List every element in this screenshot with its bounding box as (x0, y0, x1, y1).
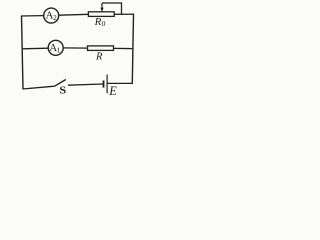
wire (59, 13, 89, 16)
label R0 (94, 16, 106, 28)
battery E (104, 75, 108, 94)
ammeter A1 (48, 40, 63, 55)
svg-text:S: S (59, 86, 66, 97)
wire (114, 13, 134, 15)
svg-text:0: 0 (102, 19, 106, 28)
svg-text:E: E (108, 84, 117, 98)
svg-text:R: R (94, 16, 102, 28)
svg-text:1: 1 (57, 45, 61, 54)
wire (132, 14, 133, 83)
wire (114, 47, 134, 49)
wire (108, 82, 133, 84)
switch S (54, 80, 65, 87)
wire (63, 47, 87, 49)
wire (68, 84, 103, 85)
wire (21, 15, 44, 17)
wire (23, 47, 49, 50)
rheostat R0 (88, 3, 121, 16)
svg-text:R: R (95, 51, 103, 62)
svg-text:2: 2 (53, 13, 57, 22)
resistor R (88, 46, 114, 51)
label E (108, 84, 117, 98)
label R (95, 51, 103, 62)
ammeter A2 (44, 8, 59, 23)
wire (23, 86, 55, 89)
label S (59, 86, 66, 97)
wire (22, 16, 24, 89)
